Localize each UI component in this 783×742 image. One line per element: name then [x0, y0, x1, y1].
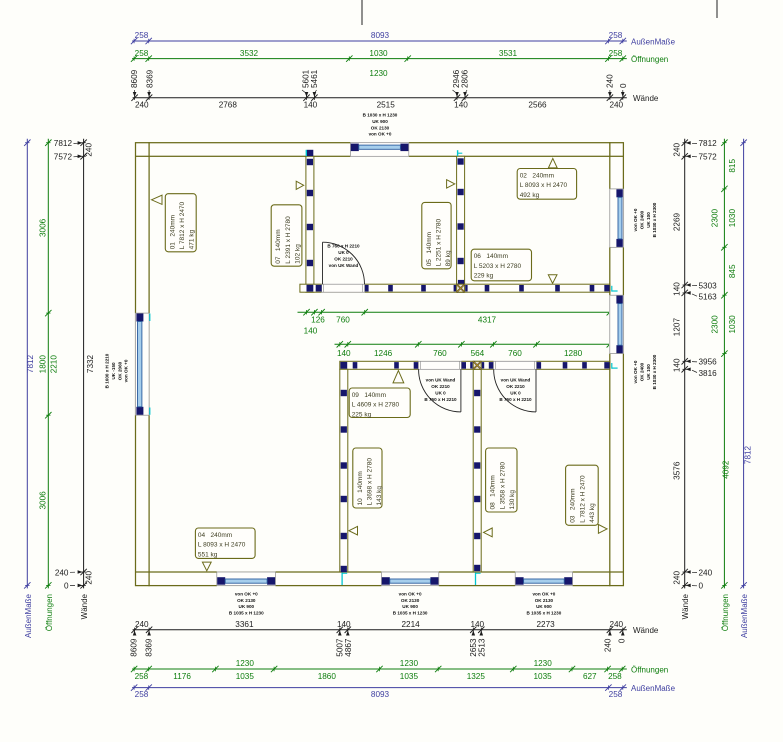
cyan marker bottom wall at wall08 — [475, 573, 477, 585]
fasteners wall 10 — [341, 390, 347, 396]
cut line top center — [361, 0, 363, 25]
svg-text:B 1030 x H 2300: B 1030 x H 2300 — [652, 354, 657, 389]
svg-text:5601: 5601 — [302, 69, 311, 88]
svg-text:2946: 2946 — [452, 69, 461, 88]
svg-text:240: 240 — [699, 568, 713, 577]
svg-text:05 140mm: 05 140mm — [426, 232, 433, 266]
svg-text:OK 2130: OK 2130 — [371, 125, 390, 130]
fastener wall09 right end — [604, 362, 609, 368]
bottom dim line Waende (black) — [133, 629, 627, 631]
svg-text:1230: 1230 — [369, 69, 388, 78]
svg-text:UK 100: UK 100 — [646, 364, 651, 380]
svg-text:Wände: Wände — [80, 593, 89, 619]
svg-text:L 4609 x H 2780: L 4609 x H 2780 — [352, 402, 400, 409]
svg-text:von OK +0: von OK +0 — [399, 592, 422, 597]
bottom dim line AussenMasse (blue) — [132, 687, 627, 689]
svg-text:1030: 1030 — [728, 315, 737, 334]
svg-text:140: 140 — [454, 101, 468, 110]
svg-text:Wände: Wände — [633, 94, 659, 103]
svg-text:3361: 3361 — [235, 620, 254, 629]
window left wall B1600 — [135, 313, 150, 415]
svg-text:von UK Wand: von UK Wand — [426, 378, 456, 383]
svg-text:2806: 2806 — [461, 69, 470, 88]
svg-text:1207: 1207 — [673, 318, 682, 337]
svg-text:3006: 3006 — [38, 491, 47, 510]
svg-text:L 3558 x H 2780: L 3558 x H 2780 — [499, 462, 506, 510]
svg-text:240: 240 — [55, 568, 69, 577]
svg-text:225 kg: 225 kg — [352, 411, 372, 418]
svg-text:7332: 7332 — [86, 354, 95, 373]
svg-text:258: 258 — [608, 672, 622, 681]
door D2 arc — [419, 369, 461, 412]
bottom dim line Oeffnungen (green) — [132, 668, 627, 670]
svg-text:L 3698 x H 2780: L 3698 x H 2780 — [367, 458, 374, 506]
svg-text:01 240mm: 01 240mm — [169, 215, 176, 249]
svg-text:1176: 1176 — [173, 672, 191, 681]
svg-text:240: 240 — [673, 571, 682, 585]
wall 07 interior vertical — [306, 156, 314, 292]
svg-text:140: 140 — [337, 620, 351, 629]
wall 02 top exterior — [149, 143, 610, 157]
marker triangle wall01 — [152, 195, 163, 204]
label wall 03 — [566, 465, 599, 525]
svg-text:von UK Wand: von UK Wand — [501, 378, 531, 383]
svg-text:258: 258 — [135, 31, 149, 40]
svg-text:OK 2400: OK 2400 — [639, 362, 644, 381]
label wall 10 — [353, 448, 382, 508]
svg-text:130 kg: 130 kg — [509, 490, 516, 510]
svg-text:258: 258 — [609, 49, 623, 58]
svg-text:5163: 5163 — [699, 293, 718, 302]
svg-text:240: 240 — [603, 638, 612, 652]
svg-text:B 1600 x H 2210: B 1600 x H 2210 — [105, 353, 110, 388]
svg-text:2566: 2566 — [528, 101, 547, 110]
marker triangle wall07 — [296, 181, 304, 189]
svg-text:0: 0 — [619, 83, 628, 88]
svg-text:UK 100: UK 100 — [646, 212, 651, 228]
svg-text:von UK Wand: von UK Wand — [329, 263, 359, 268]
svg-text:140: 140 — [304, 326, 318, 335]
junction wall07/wall06 navy — [307, 285, 314, 292]
svg-text:AußenMaße: AußenMaße — [740, 593, 749, 638]
svg-text:1280: 1280 — [564, 349, 583, 358]
label wall 01 — [165, 194, 196, 252]
svg-text:1030: 1030 — [728, 209, 737, 228]
door D3 wall09-right leaf — [535, 369, 537, 412]
cut line top right — [716, 0, 718, 18]
svg-text:7572: 7572 — [699, 153, 718, 162]
svg-text:Wände: Wände — [633, 626, 659, 635]
label wall 06 — [471, 249, 531, 281]
svg-text:7812: 7812 — [26, 354, 35, 373]
svg-text:258: 258 — [135, 672, 149, 681]
door jambs wall 09 — [414, 362, 418, 369]
svg-text:L 2391 x H 2780: L 2391 x H 2780 — [285, 216, 292, 264]
svg-text:551 kg: 551 kg — [198, 551, 218, 558]
svg-text:2513: 2513 — [478, 638, 487, 657]
junction X-box wall05/wall06 — [457, 284, 465, 292]
svg-text:UK 0: UK 0 — [338, 250, 349, 255]
svg-text:140: 140 — [337, 349, 351, 358]
svg-text:B 1035 x H 1230: B 1035 x H 1230 — [229, 611, 264, 616]
svg-text:Öffnungen: Öffnungen — [631, 55, 668, 64]
svg-text:8369: 8369 — [146, 69, 155, 88]
svg-text:Öffnungen: Öffnungen — [45, 594, 54, 631]
svg-text:L 5203 x H 2780: L 5203 x H 2780 — [474, 263, 522, 270]
fastener wall05 bottom — [458, 280, 464, 284]
svg-text:2300: 2300 — [711, 209, 720, 228]
svg-text:UK 0: UK 0 — [510, 391, 521, 396]
fasteners wall 08 — [474, 390, 480, 396]
svg-text:0: 0 — [64, 582, 69, 591]
fasteners wall 07 — [307, 159, 313, 165]
window bottom wall 3 B1035 — [515, 571, 572, 586]
top dim line Waende (black) — [133, 97, 627, 99]
svg-text:240: 240 — [135, 101, 149, 110]
door D1 wall06 leaf — [322, 242, 324, 284]
window right wall upper B1030 — [609, 189, 624, 247]
cyan marker left wall window ends — [149, 314, 151, 322]
svg-text:7572: 7572 — [54, 153, 73, 162]
svg-text:2273: 2273 — [536, 620, 555, 629]
cyan marker right wall at wall09 — [611, 363, 613, 369]
svg-text:Öffnungen: Öffnungen — [631, 665, 668, 674]
svg-text:Öffnungen: Öffnungen — [721, 594, 730, 631]
left dim line Oeffnungen (green) — [47, 139, 49, 589]
svg-text:1035: 1035 — [400, 672, 419, 681]
svg-text:von OK +0: von OK +0 — [633, 360, 638, 383]
svg-text:240: 240 — [85, 571, 94, 585]
svg-text:L 7812 x H 2470: L 7812 x H 2470 — [179, 201, 186, 249]
svg-text:8609: 8609 — [130, 638, 139, 657]
svg-text:3532: 3532 — [240, 49, 259, 58]
corner joints — [136, 155, 150, 157]
svg-text:AußenMaße: AußenMaße — [631, 684, 676, 693]
marker triangle wall03 — [598, 525, 607, 534]
svg-text:09 140mm: 09 140mm — [352, 392, 386, 399]
junction wall10/wall09 navy — [340, 362, 347, 369]
svg-text:Wände: Wände — [681, 593, 690, 619]
svg-text:UK 900: UK 900 — [536, 604, 552, 609]
svg-text:von OK +0: von OK +0 — [235, 592, 258, 597]
svg-text:OK 2130: OK 2130 — [401, 598, 420, 603]
label wall 08 — [486, 448, 517, 512]
svg-text:2269: 2269 — [673, 212, 682, 231]
svg-text:1035: 1035 — [533, 672, 552, 681]
svg-text:492 kg: 492 kg — [520, 192, 540, 199]
svg-text:258: 258 — [135, 49, 149, 58]
svg-text:140: 140 — [673, 282, 682, 296]
svg-text:240: 240 — [85, 143, 94, 157]
svg-text:89 kg: 89 kg — [445, 250, 452, 266]
svg-text:7812: 7812 — [699, 139, 718, 148]
svg-text:1230: 1230 — [534, 659, 553, 668]
wall 08 interior vertical — [473, 369, 481, 572]
svg-text:L 7812 x H 2470: L 7812 x H 2470 — [579, 475, 586, 523]
door D1 wall06 arc — [323, 242, 365, 284]
svg-text:760: 760 — [508, 349, 522, 358]
marker triangle wall09 — [393, 371, 404, 383]
door D2 wall09-left leaf — [460, 369, 462, 412]
svg-text:1325: 1325 — [467, 672, 486, 681]
svg-text:1230: 1230 — [236, 659, 255, 668]
svg-text:1860: 1860 — [318, 672, 337, 681]
left dim line Waende (black) — [83, 139, 85, 589]
svg-text:2210: 2210 — [50, 355, 59, 374]
svg-text:760: 760 — [336, 316, 350, 325]
door opening wall 09 left — [418, 361, 461, 370]
svg-text:AußenMaße: AußenMaße — [631, 37, 676, 46]
svg-text:2768: 2768 — [219, 101, 238, 110]
mid dim chain B (wall 09 doors) — [335, 343, 610, 345]
label wall 02 — [517, 169, 576, 200]
svg-text:von OK +0: von OK +0 — [532, 592, 555, 597]
fasteners wall 09 — [353, 362, 358, 368]
svg-text:1800: 1800 — [38, 355, 47, 374]
svg-text:2300: 2300 — [711, 315, 720, 334]
svg-text:143 kg: 143 kg — [376, 486, 383, 506]
label wall 07 — [271, 205, 302, 266]
label wall 05 — [422, 202, 451, 268]
cyan marker right wall at wall06 — [611, 286, 613, 292]
window right wall lower B1030 — [609, 295, 624, 353]
fasteners wall 06 — [388, 285, 393, 291]
svg-text:UK 0: UK 0 — [435, 391, 446, 396]
svg-text:5303: 5303 — [699, 281, 718, 290]
svg-text:2214: 2214 — [401, 620, 420, 629]
svg-text:UK 900: UK 900 — [239, 604, 255, 609]
svg-text:OK 2210: OK 2210 — [334, 257, 353, 262]
svg-text:3531: 3531 — [499, 49, 518, 58]
door opening wall 09 right — [493, 361, 536, 370]
mid dim chain A (wall 06 door) — [298, 311, 610, 313]
svg-text:564: 564 — [471, 349, 485, 358]
svg-text:OK 2210: OK 2210 — [506, 384, 525, 389]
svg-text:240: 240 — [609, 101, 623, 110]
svg-text:OK 2060: OK 2060 — [117, 361, 122, 380]
svg-text:5007: 5007 — [335, 638, 344, 657]
svg-text:1246: 1246 — [374, 349, 393, 358]
svg-text:UK -150: UK -150 — [111, 362, 116, 380]
top dim line Oeffnungen (green) — [132, 58, 627, 60]
svg-text:B 1030 x H 2300: B 1030 x H 2300 — [652, 202, 657, 237]
svg-text:140: 140 — [470, 620, 484, 629]
svg-text:2515: 2515 — [377, 101, 396, 110]
window top wall B1030 — [350, 142, 408, 157]
svg-text:3956: 3956 — [699, 358, 718, 367]
svg-text:240: 240 — [673, 143, 682, 157]
svg-text:240: 240 — [135, 620, 149, 629]
wall 10 interior vertical — [340, 369, 348, 572]
svg-text:OK 2130: OK 2130 — [237, 598, 256, 603]
top dim line AussenMasse (blue) — [132, 40, 627, 42]
marker triangle wall05 — [447, 180, 455, 188]
svg-text:240: 240 — [609, 620, 623, 629]
svg-text:4092: 4092 — [722, 460, 731, 479]
door opening wall 06 — [322, 284, 365, 293]
svg-text:845: 845 — [728, 264, 737, 278]
marker triangle wall04 — [202, 562, 211, 571]
wall 04 bottom exterior — [149, 572, 610, 586]
svg-text:04 240mm: 04 240mm — [198, 532, 232, 539]
svg-text:von OK +0: von OK +0 — [633, 208, 638, 231]
svg-text:AußenMaße: AußenMaße — [24, 593, 33, 638]
marker triangle wall10 — [349, 526, 358, 535]
svg-text:03 240mm: 03 240mm — [570, 488, 577, 522]
svg-text:760: 760 — [433, 349, 447, 358]
cyan marker bottom wall at wall10 — [341, 573, 343, 585]
svg-text:8609: 8609 — [130, 69, 139, 88]
svg-text:UK 900: UK 900 — [402, 604, 418, 609]
svg-text:240: 240 — [605, 74, 614, 88]
fastener wall06 right end — [604, 285, 609, 291]
fasteners wall 05 — [458, 158, 464, 164]
door jambs wall 06 — [316, 285, 322, 292]
label wall 09 — [349, 388, 410, 418]
svg-text:258: 258 — [609, 31, 623, 40]
svg-text:140: 140 — [673, 358, 682, 372]
junction X-box wall08/wall09 — [473, 361, 481, 369]
wall 01 left exterior — [136, 143, 150, 586]
cyan marker top wall at wall05 — [457, 150, 459, 156]
svg-text:06 140mm: 06 140mm — [474, 253, 508, 260]
svg-text:B 760 x H 2210: B 760 x H 2210 — [499, 397, 532, 402]
left dim line AussenMasse (blue) — [26, 139, 28, 589]
svg-text:B 1035 x H 1230: B 1035 x H 1230 — [527, 611, 562, 616]
right dim line Oeffnungen (green) — [723, 139, 725, 589]
svg-text:7812: 7812 — [744, 445, 753, 464]
svg-text:5461: 5461 — [310, 69, 319, 88]
svg-text:140: 140 — [304, 101, 318, 110]
window bottom wall 2 B1035 — [381, 571, 438, 586]
marker triangle wall08 — [484, 528, 493, 537]
svg-text:126: 126 — [311, 316, 325, 325]
svg-text:08 140mm: 08 140mm — [490, 475, 497, 509]
svg-text:8093: 8093 — [371, 31, 390, 40]
svg-text:B 1035 x H 1230: B 1035 x H 1230 — [393, 611, 428, 616]
svg-text:B 760 x H 2210: B 760 x H 2210 — [327, 244, 360, 249]
window bottom wall 1 B1035 — [217, 571, 276, 586]
label wall 04 — [195, 528, 255, 558]
svg-text:258: 258 — [135, 690, 149, 699]
svg-text:0: 0 — [617, 638, 626, 643]
svg-text:von OK +0: von OK +0 — [369, 132, 392, 137]
svg-text:0: 0 — [699, 582, 704, 591]
svg-text:8369: 8369 — [145, 638, 154, 657]
svg-text:4867: 4867 — [344, 638, 353, 657]
wall 09 interior horizontal — [340, 361, 610, 369]
svg-text:OK 2130: OK 2130 — [535, 598, 554, 603]
svg-text:3816: 3816 — [699, 369, 718, 378]
svg-text:B 760 x H 2210: B 760 x H 2210 — [424, 397, 457, 402]
svg-text:07 140mm: 07 140mm — [275, 229, 282, 263]
svg-text:L 2251 x H 2780: L 2251 x H 2780 — [436, 218, 443, 266]
svg-text:815: 815 — [728, 159, 737, 173]
svg-text:3576: 3576 — [673, 461, 682, 480]
svg-text:OK 2210: OK 2210 — [431, 384, 450, 389]
svg-text:OK 2400: OK 2400 — [639, 210, 644, 229]
door D3 arc — [494, 369, 536, 412]
marker triangle wall06 — [548, 275, 557, 284]
wall 05 interior vertical — [457, 156, 465, 292]
svg-text:7812: 7812 — [54, 139, 73, 148]
svg-text:L 8093 x H 2470: L 8093 x H 2470 — [520, 182, 568, 189]
svg-text:1035: 1035 — [236, 672, 255, 681]
svg-text:B 1030 x H 1230: B 1030 x H 1230 — [363, 113, 398, 118]
svg-text:471 kg: 471 kg — [189, 229, 196, 249]
marker triangle wall02 — [548, 158, 557, 168]
svg-text:UK 900: UK 900 — [372, 119, 388, 124]
svg-text:443 kg: 443 kg — [589, 503, 596, 523]
svg-text:von OK +0: von OK +0 — [124, 359, 129, 382]
svg-text:1230: 1230 — [400, 659, 419, 668]
svg-text:258: 258 — [609, 690, 623, 699]
svg-text:4317: 4317 — [478, 316, 497, 325]
svg-text:229 kg: 229 kg — [474, 273, 494, 280]
wall 03 right exterior — [610, 143, 624, 586]
svg-text:3006: 3006 — [38, 218, 47, 237]
svg-text:1030: 1030 — [369, 49, 388, 58]
svg-text:627: 627 — [583, 672, 597, 681]
right dim line AussenMasse (blue) — [743, 139, 745, 589]
svg-text:02 240mm: 02 240mm — [520, 173, 554, 180]
svg-text:2653: 2653 — [469, 638, 478, 657]
svg-text:102 kg: 102 kg — [295, 244, 302, 264]
svg-text:8093: 8093 — [371, 690, 390, 699]
cyan marker top wall at wall07 — [307, 150, 313, 156]
svg-text:10 140mm: 10 140mm — [357, 471, 364, 505]
wall 06 interior horizontal — [300, 284, 610, 292]
svg-text:L 8093 x H 2470: L 8093 x H 2470 — [198, 542, 246, 549]
right dim line Waende (black) — [684, 139, 686, 589]
